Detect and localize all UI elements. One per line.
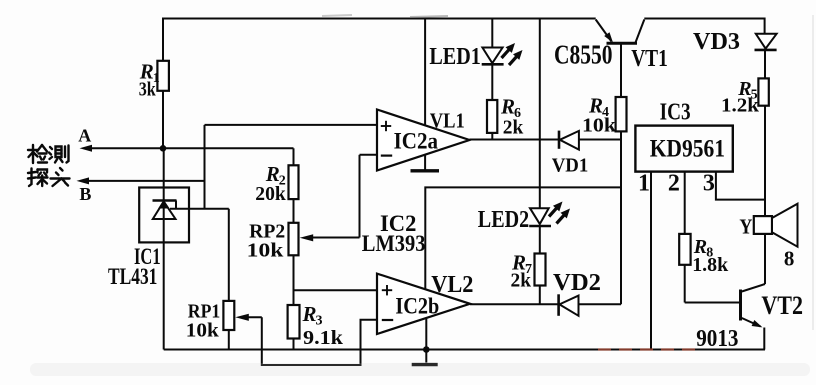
svg-text:1: 1 [638,171,650,197]
svg-text:9013: 9013 [696,326,738,352]
svg-text:3k: 3k [139,79,157,101]
svg-text:20k: 20k [255,183,286,205]
svg-text:LED1: LED1 [429,44,480,70]
svg-text:IC3: IC3 [660,100,691,126]
svg-text:VD2: VD2 [553,270,601,296]
svg-text:10k: 10k [186,320,220,342]
svg-text:TL431: TL431 [108,264,157,289]
svg-text:2: 2 [668,171,680,197]
svg-text:10k: 10k [582,115,617,137]
svg-text:A: A [78,126,91,146]
svg-text:1.8k: 1.8k [692,254,729,276]
svg-text:VD1: VD1 [552,154,589,176]
svg-text:3: 3 [703,171,715,197]
svg-text:LM393: LM393 [362,231,426,256]
svg-text:VD3: VD3 [693,29,740,55]
svg-text:1.2k: 1.2k [721,95,760,117]
svg-text:VT1: VT1 [631,46,668,72]
svg-text:R: R [500,95,515,119]
svg-text:8: 8 [784,247,795,271]
svg-text:IC2a: IC2a [394,129,439,154]
svg-text:10k: 10k [247,239,285,261]
svg-text:2k: 2k [511,270,532,292]
svg-text:B: B [79,184,91,204]
svg-text:Y: Y [739,214,752,238]
svg-text:R: R [302,302,317,326]
svg-text:LED2: LED2 [478,207,529,233]
svg-text:KD9561: KD9561 [650,136,725,163]
svg-text:VT2: VT2 [761,291,803,320]
svg-text:IC2b: IC2b [395,294,439,319]
svg-text:C8550: C8550 [554,40,613,70]
svg-text:9.1k: 9.1k [303,327,344,349]
svg-text:2k: 2k [503,116,524,138]
